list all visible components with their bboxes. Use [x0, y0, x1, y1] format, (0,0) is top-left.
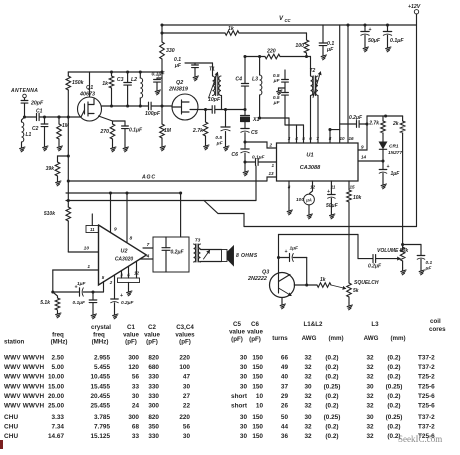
- svg-text:30: 30: [240, 374, 248, 381]
- svg-text:T37-2: T37-2: [418, 355, 435, 362]
- svg-text:56: 56: [183, 424, 191, 431]
- svg-text:WWV WWVH: WWV WWVH: [4, 403, 44, 410]
- svg-text:32: 32: [366, 374, 374, 381]
- svg-text:15: 15: [349, 185, 355, 190]
- svg-text:5.00: 5.00: [52, 364, 65, 371]
- svg-text:25.455: 25.455: [90, 403, 110, 410]
- svg-text:220: 220: [179, 355, 190, 362]
- svg-text:10k: 10k: [353, 195, 362, 201]
- svg-text:30: 30: [132, 393, 140, 400]
- svg-text:+: +: [369, 27, 372, 33]
- svg-text:AGC: AGC: [141, 175, 156, 181]
- svg-text:10: 10: [339, 136, 345, 141]
- svg-text:(0.2): (0.2): [325, 355, 338, 362]
- svg-text:0.1: 0.1: [426, 260, 433, 266]
- svg-text:10.455: 10.455: [90, 374, 110, 381]
- svg-text:32: 32: [304, 355, 312, 362]
- svg-text:μF: μF: [326, 47, 334, 53]
- svg-text:value: value: [229, 329, 245, 336]
- svg-text:(MHz): (MHz): [51, 339, 68, 346]
- svg-text:(pF): (pF): [249, 336, 261, 343]
- svg-text:WWV WWVH: WWV WWVH: [4, 355, 44, 362]
- svg-text:2N2222: 2N2222: [247, 276, 267, 282]
- svg-text:10: 10: [256, 393, 264, 400]
- svg-text:CHU: CHU: [4, 433, 19, 440]
- svg-text:U1: U1: [306, 153, 313, 159]
- svg-text:150: 150: [252, 355, 263, 362]
- svg-text:100pF: 100pF: [145, 111, 161, 117]
- svg-text:0.1μF: 0.1μF: [129, 128, 143, 134]
- svg-text:turns: turns: [272, 335, 288, 342]
- svg-text:16: 16: [348, 136, 354, 141]
- svg-text:150: 150: [252, 424, 263, 431]
- svg-text:7: 7: [147, 242, 150, 248]
- svg-text:10pF: 10pF: [208, 97, 221, 103]
- svg-text:5k: 5k: [353, 288, 359, 294]
- svg-text:300: 300: [128, 355, 139, 362]
- svg-text:350: 350: [148, 424, 159, 431]
- svg-text:(0.2): (0.2): [387, 355, 400, 362]
- svg-text:T2: T2: [310, 68, 316, 74]
- svg-text:36: 36: [281, 433, 289, 440]
- svg-text:15.455: 15.455: [90, 384, 110, 391]
- svg-text:5: 5: [302, 136, 305, 141]
- svg-text:(0.2): (0.2): [325, 374, 338, 381]
- svg-text:100: 100: [179, 364, 190, 371]
- svg-text:56: 56: [132, 374, 140, 381]
- svg-text:C2: C2: [148, 324, 156, 331]
- svg-text:32: 32: [366, 364, 374, 371]
- svg-text:100: 100: [295, 43, 304, 49]
- svg-text:120: 120: [128, 364, 139, 371]
- svg-text:2: 2: [269, 143, 273, 148]
- svg-text:C4: C4: [235, 77, 242, 83]
- svg-text:+: +: [120, 293, 123, 299]
- svg-text:10.00: 10.00: [48, 374, 64, 381]
- svg-text:20pF: 20pF: [30, 101, 44, 107]
- svg-text:49: 49: [281, 364, 289, 371]
- svg-text:(0.2): (0.2): [387, 364, 400, 371]
- svg-text:+: +: [387, 164, 390, 170]
- svg-text:V: V: [279, 16, 284, 22]
- svg-text:(mm): (mm): [328, 335, 343, 342]
- svg-text:6: 6: [309, 136, 312, 141]
- svg-text:32: 32: [304, 374, 312, 381]
- svg-text:T25-2: T25-2: [418, 374, 435, 381]
- svg-text:26: 26: [281, 403, 289, 410]
- svg-text:(0.2): (0.2): [387, 374, 400, 381]
- svg-text:short: short: [231, 403, 248, 410]
- svg-text:9: 9: [114, 227, 117, 233]
- svg-text:T1: T1: [209, 67, 215, 73]
- svg-text:T25-6: T25-6: [418, 393, 435, 400]
- svg-text:37: 37: [281, 384, 289, 391]
- svg-text:1: 1: [87, 264, 90, 270]
- svg-text:44: 44: [281, 424, 289, 431]
- svg-text:4: 4: [146, 253, 150, 259]
- svg-text:33: 33: [132, 433, 140, 440]
- svg-text:(0.2): (0.2): [325, 403, 338, 410]
- svg-text:T25-6: T25-6: [418, 384, 435, 391]
- svg-text:CR1: CR1: [389, 144, 399, 150]
- svg-text:T25-6: T25-6: [418, 403, 435, 410]
- svg-text:0.2μF: 0.2μF: [171, 250, 185, 256]
- svg-text:330: 330: [148, 433, 159, 440]
- svg-text:2.7k: 2.7k: [192, 128, 204, 134]
- svg-text:50μF: 50μF: [326, 203, 339, 209]
- svg-text:39k: 39k: [46, 166, 55, 172]
- svg-text:32: 32: [304, 364, 312, 371]
- svg-text:30: 30: [240, 414, 248, 421]
- svg-text:50: 50: [281, 414, 289, 421]
- svg-text:C3,C4: C3,C4: [176, 324, 194, 331]
- svg-text:7: 7: [316, 136, 319, 141]
- svg-text:1: 1: [272, 163, 275, 168]
- svg-text:+: +: [285, 249, 288, 255]
- svg-text:32: 32: [304, 403, 312, 410]
- svg-text:1k: 1k: [320, 277, 326, 283]
- svg-text:CHU: CHU: [4, 424, 19, 431]
- svg-text:32: 32: [366, 403, 374, 410]
- svg-text:30: 30: [366, 414, 374, 421]
- svg-text:T37-2: T37-2: [418, 424, 435, 431]
- svg-text:30: 30: [304, 414, 312, 421]
- svg-text:30: 30: [240, 424, 248, 431]
- svg-text:SeekIC.com: SeekIC.com: [398, 434, 442, 444]
- svg-text:1μF: 1μF: [391, 171, 401, 177]
- svg-text:(0.25): (0.25): [386, 414, 403, 421]
- svg-text:2.955: 2.955: [94, 355, 110, 362]
- svg-text:station: station: [4, 339, 25, 346]
- svg-text:SQUELCH: SQUELCH: [354, 280, 379, 286]
- svg-text:(0.25): (0.25): [386, 384, 403, 391]
- svg-text:330: 330: [148, 384, 159, 391]
- svg-text:820: 820: [148, 414, 159, 421]
- svg-text:C2: C2: [32, 126, 39, 132]
- svg-text:2N3819: 2N3819: [168, 87, 188, 93]
- svg-text:U2: U2: [121, 249, 128, 255]
- svg-text:L3: L3: [371, 321, 379, 328]
- svg-text:150: 150: [252, 433, 263, 440]
- svg-text:C3: C3: [117, 77, 124, 83]
- svg-text:ANTENNA: ANTENNA: [10, 88, 38, 94]
- svg-text:100: 100: [296, 197, 304, 203]
- svg-text:330: 330: [148, 374, 159, 381]
- svg-text:220: 220: [266, 49, 276, 55]
- svg-text:T37-2: T37-2: [418, 414, 435, 421]
- svg-text:33: 33: [132, 384, 140, 391]
- svg-text:47: 47: [183, 374, 191, 381]
- svg-text:25.00: 25.00: [48, 403, 64, 410]
- svg-text:30: 30: [183, 384, 191, 391]
- svg-text:5: 5: [102, 275, 105, 280]
- svg-text:1μF: 1μF: [77, 281, 87, 287]
- svg-text:L1: L1: [26, 132, 32, 138]
- svg-text:WWV WWVH: WWV WWVH: [4, 393, 44, 400]
- svg-text:short: short: [231, 393, 248, 400]
- svg-text:CHU: CHU: [4, 414, 19, 421]
- svg-text:27: 27: [183, 393, 191, 400]
- svg-text:CA3020: CA3020: [115, 257, 134, 263]
- svg-text:15.00: 15.00: [48, 384, 64, 391]
- svg-text:32: 32: [366, 355, 374, 362]
- svg-text:0.2μF: 0.2μF: [368, 264, 382, 270]
- svg-text:3.785: 3.785: [94, 414, 110, 421]
- svg-text:1μF: 1μF: [290, 246, 300, 252]
- svg-text:9: 9: [361, 145, 364, 150]
- svg-text:crystal: crystal: [91, 324, 111, 331]
- svg-text:22: 22: [183, 403, 191, 410]
- svg-text:220: 220: [179, 414, 190, 421]
- svg-text:15.125: 15.125: [90, 433, 110, 440]
- svg-text:freq: freq: [93, 332, 105, 339]
- svg-text:3.33: 3.33: [52, 414, 65, 421]
- svg-text:150: 150: [252, 384, 263, 391]
- svg-text:510k: 510k: [44, 211, 55, 217]
- svg-text:11: 11: [90, 227, 95, 232]
- svg-text:32: 32: [366, 393, 374, 400]
- svg-text:32: 32: [304, 393, 312, 400]
- svg-text:0.2μF: 0.2μF: [121, 300, 135, 306]
- svg-text:C1: C1: [127, 324, 135, 331]
- svg-text:(mm): (mm): [390, 335, 405, 342]
- svg-text:T37-2: T37-2: [418, 364, 435, 371]
- svg-text:14: 14: [361, 155, 367, 160]
- svg-text:2.7k: 2.7k: [368, 121, 379, 127]
- svg-text:150: 150: [252, 364, 263, 371]
- svg-text:30: 30: [240, 433, 248, 440]
- svg-text:0.1μF: 0.1μF: [73, 300, 87, 306]
- svg-text:330: 330: [148, 393, 159, 400]
- svg-text:20.00: 20.00: [48, 393, 64, 400]
- svg-text:L2: L2: [131, 77, 137, 83]
- svg-text:270: 270: [99, 129, 109, 135]
- svg-text:μF: μF: [273, 78, 281, 84]
- svg-text:30: 30: [304, 384, 312, 391]
- svg-text:(MHz): (MHz): [92, 339, 109, 346]
- svg-text:values: values: [175, 332, 195, 339]
- svg-text:L1&L2: L1&L2: [304, 321, 323, 328]
- svg-text:50μF: 50μF: [368, 38, 381, 44]
- svg-text:AWG: AWG: [302, 335, 317, 342]
- svg-text:7.795: 7.795: [94, 424, 110, 431]
- svg-text:150: 150: [252, 414, 263, 421]
- svg-text:WWV WWVH: WWV WWVH: [4, 364, 44, 371]
- svg-text:680: 680: [148, 364, 159, 371]
- svg-text:1M: 1M: [164, 128, 172, 134]
- svg-text:13: 13: [269, 171, 275, 176]
- svg-text:32: 32: [304, 424, 312, 431]
- svg-text:C5: C5: [251, 130, 258, 136]
- svg-text:40673: 40673: [79, 92, 95, 98]
- svg-text:(0.2): (0.2): [387, 403, 400, 410]
- svg-text:40: 40: [281, 374, 289, 381]
- svg-text:μF: μF: [273, 100, 281, 106]
- svg-text:10: 10: [84, 246, 90, 252]
- svg-text:29: 29: [281, 393, 289, 400]
- svg-text:300: 300: [128, 414, 139, 421]
- svg-text:0.1μF: 0.1μF: [390, 38, 404, 44]
- svg-text:330: 330: [166, 48, 175, 54]
- svg-text:value: value: [247, 329, 263, 336]
- svg-text:4: 4: [294, 136, 298, 141]
- svg-text:(pF): (pF): [179, 339, 191, 346]
- svg-text:150: 150: [252, 374, 263, 381]
- svg-text:32: 32: [366, 424, 374, 431]
- svg-text:66: 66: [281, 355, 289, 362]
- svg-text:2k: 2k: [392, 121, 399, 127]
- svg-text:300: 300: [148, 403, 159, 410]
- svg-text:μF: μF: [425, 266, 433, 272]
- svg-text:(0.2): (0.2): [325, 424, 338, 431]
- svg-text:CA3088: CA3088: [300, 165, 321, 171]
- svg-text:1k: 1k: [102, 81, 109, 87]
- svg-text:8: 8: [130, 236, 133, 242]
- svg-text:cores: cores: [429, 326, 446, 333]
- svg-text:(0.2): (0.2): [387, 393, 400, 400]
- svg-text:0.1μF: 0.1μF: [252, 155, 266, 161]
- svg-text:coil: coil: [430, 318, 441, 325]
- svg-text:30: 30: [240, 384, 248, 391]
- svg-text:+: +: [327, 189, 330, 195]
- svg-text:2: 2: [109, 280, 113, 285]
- svg-text:8: 8: [329, 136, 332, 141]
- svg-text:0.5: 0.5: [215, 135, 222, 141]
- svg-text:T3: T3: [195, 238, 201, 244]
- svg-text:(pF): (pF): [231, 336, 243, 343]
- svg-text:(0.25): (0.25): [324, 414, 341, 421]
- svg-text:30: 30: [240, 364, 248, 371]
- svg-text:L3: L3: [252, 77, 258, 83]
- svg-text:(pF): (pF): [146, 339, 158, 346]
- svg-text:Q2: Q2: [176, 80, 183, 86]
- svg-text:8 OHMS: 8 OHMS: [236, 253, 258, 259]
- svg-text:+12V: +12V: [408, 4, 421, 10]
- svg-text:7.34: 7.34: [52, 424, 65, 431]
- svg-text:3: 3: [288, 136, 291, 141]
- svg-text:(0.25): (0.25): [324, 384, 341, 391]
- svg-text:(0.2): (0.2): [325, 364, 338, 371]
- svg-text:CC: CC: [285, 18, 292, 23]
- svg-text:68: 68: [132, 424, 140, 431]
- svg-text:20.455: 20.455: [90, 393, 110, 400]
- svg-text:30: 30: [183, 433, 191, 440]
- svg-text:VOLUME 50k: VOLUME 50k: [377, 248, 408, 254]
- svg-text:C5: C5: [233, 321, 241, 328]
- svg-text:32: 32: [304, 433, 312, 440]
- svg-text:(0.2): (0.2): [325, 433, 338, 440]
- svg-text:1N277: 1N277: [388, 150, 402, 156]
- svg-text:C6: C6: [231, 152, 238, 158]
- svg-text:2.50: 2.50: [52, 355, 65, 362]
- svg-text:10: 10: [256, 403, 264, 410]
- svg-text:value: value: [123, 332, 139, 339]
- svg-text:150k: 150k: [72, 80, 85, 86]
- svg-text:WWV WWVH: WWV WWVH: [4, 374, 44, 381]
- svg-text:C1: C1: [36, 109, 43, 115]
- svg-text:Q3: Q3: [262, 270, 269, 276]
- svg-text:WWV WWVH: WWV WWVH: [4, 384, 44, 391]
- svg-text:μA: μA: [305, 198, 312, 203]
- svg-text:5.1k: 5.1k: [40, 300, 50, 306]
- svg-text:5.455: 5.455: [94, 364, 110, 371]
- svg-text:(pF): (pF): [125, 339, 137, 346]
- svg-text:AWG: AWG: [364, 335, 379, 342]
- svg-text:C6: C6: [251, 321, 259, 328]
- svg-text:32: 32: [366, 433, 374, 440]
- svg-text:μF: μF: [216, 141, 224, 147]
- svg-text:30: 30: [240, 355, 248, 362]
- svg-text:14.67: 14.67: [48, 433, 64, 440]
- svg-text:value: value: [144, 332, 160, 339]
- svg-text:freq: freq: [52, 332, 64, 339]
- svg-text:μF: μF: [174, 63, 182, 69]
- svg-text:0.2μF: 0.2μF: [349, 115, 363, 121]
- svg-text:30: 30: [366, 384, 374, 391]
- svg-text:24: 24: [132, 403, 140, 410]
- svg-text:(0.2): (0.2): [325, 393, 338, 400]
- svg-text:(0.2): (0.2): [387, 424, 400, 431]
- svg-text:0.1μF: 0.1μF: [151, 72, 165, 78]
- svg-text:820: 820: [148, 355, 159, 362]
